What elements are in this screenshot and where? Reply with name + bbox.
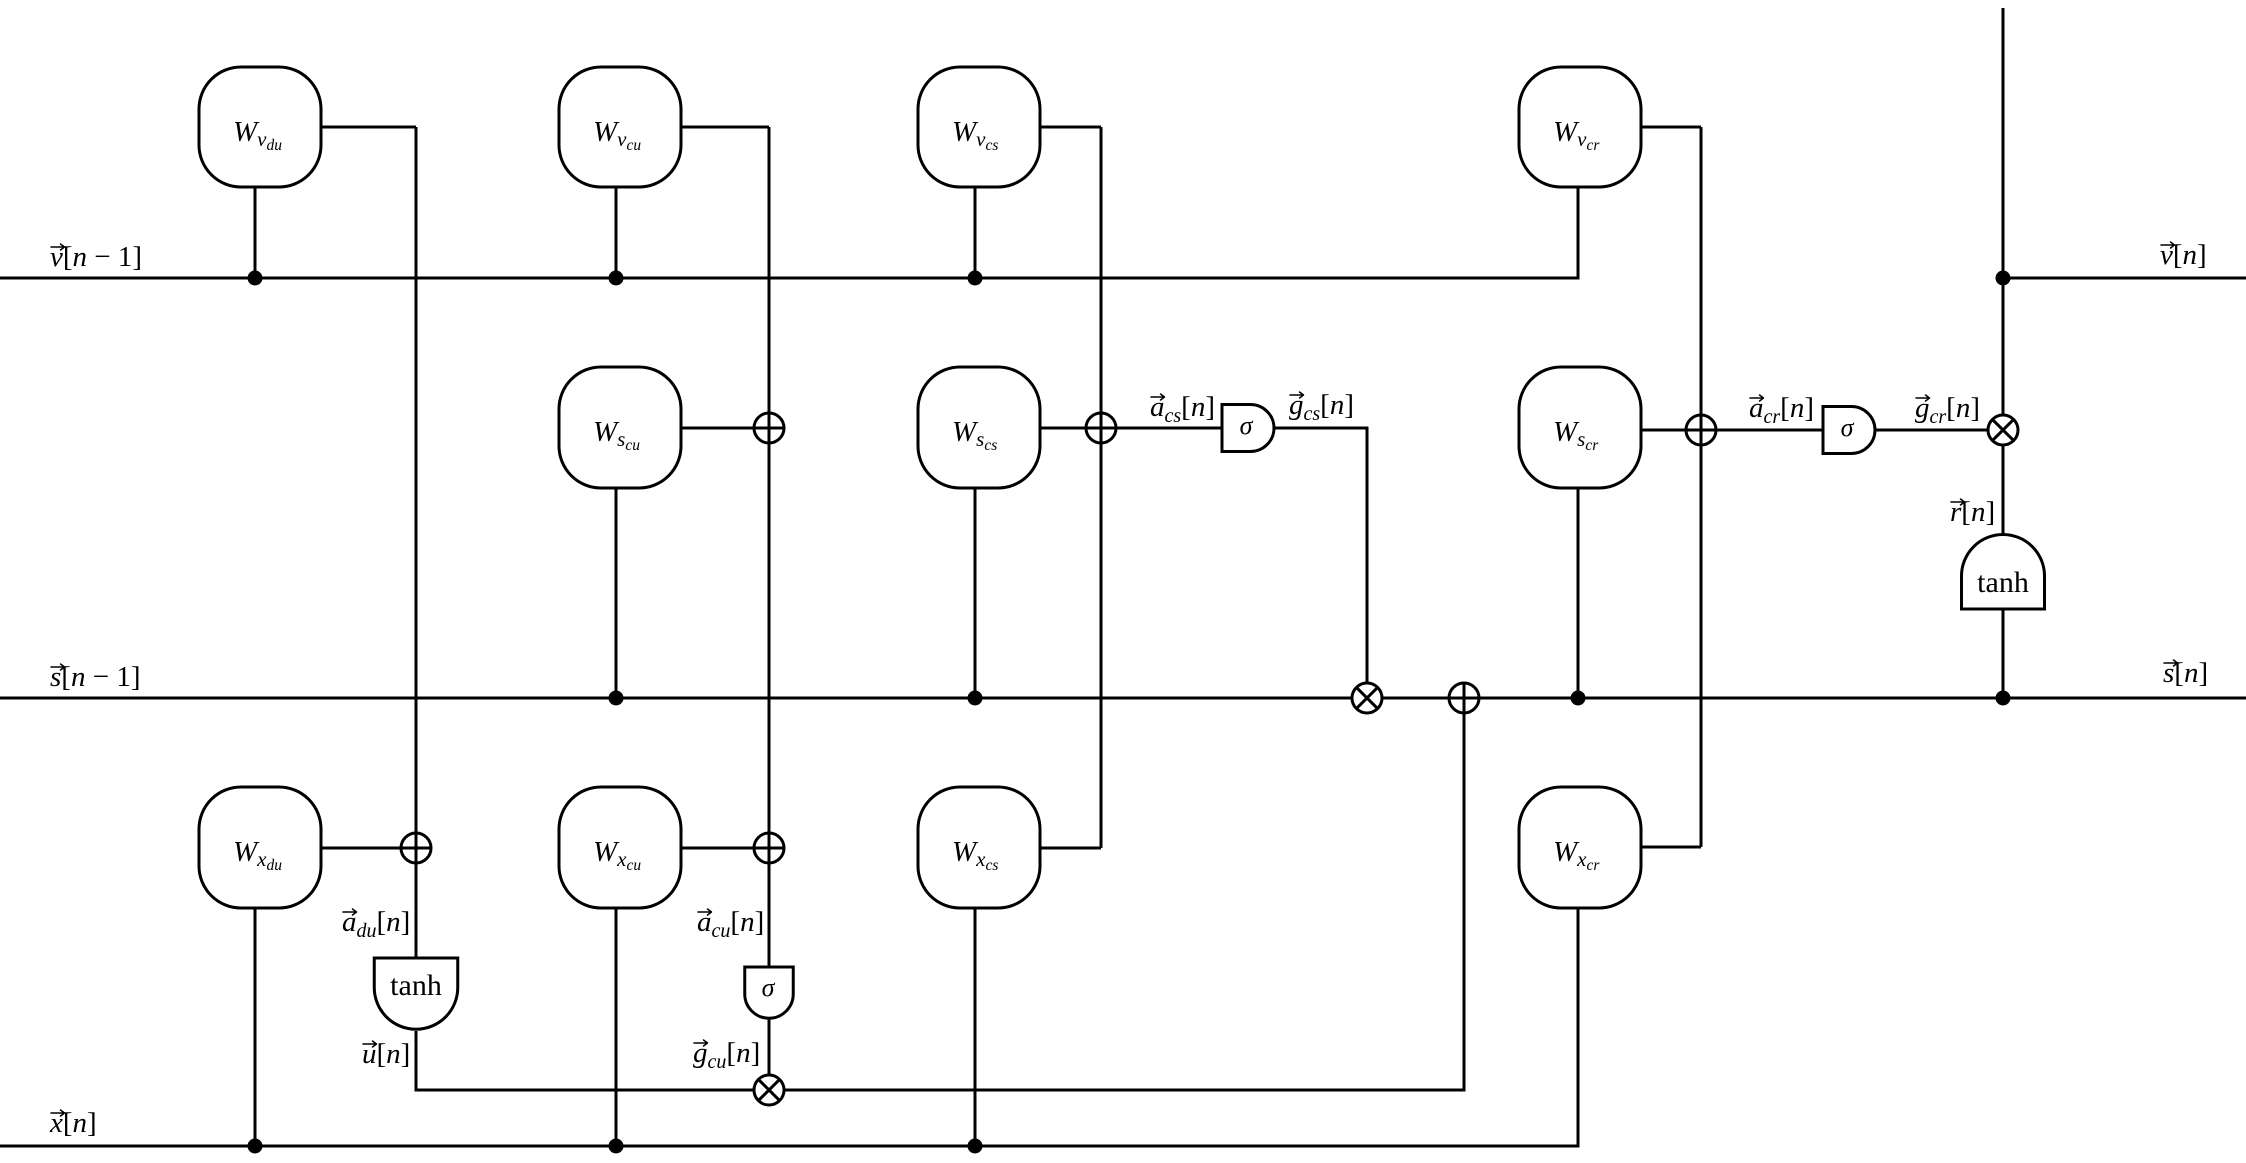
junction dot s bus / W_s_cr: [1571, 691, 1586, 706]
multiplier (circled times) g_cr: [1988, 415, 2018, 445]
wire W_x_cr output: [1641, 846, 1701, 849]
wire g_cr sigma to multiplier: [1875, 429, 2003, 432]
label s[n-1]: [50, 661, 140, 693]
weight block W_v_du: [199, 67, 321, 187]
junction dot x bus / W_x_cu: [609, 1139, 624, 1154]
wire stem W_x_cs to x bus: [974, 908, 977, 1146]
sigma gate (right-pointing) for a_cr: [1823, 407, 1875, 454]
svg-text:tanh: tanh: [390, 969, 442, 1002]
wire stem W_x_cu to x bus: [615, 908, 618, 1146]
wire adder to sigma cs: [1101, 427, 1222, 430]
tanh gate (down-pointing) for u[n]: [374, 958, 458, 1029]
wire W_v_du output: [321, 126, 416, 129]
sigma gate (down-pointing) for a_cu: [745, 967, 794, 1018]
label x[n]: [49, 1107, 97, 1139]
wire W_s_cs output to adder: [1040, 427, 1101, 430]
wire vertical cs column (a_cs): [1100, 127, 1103, 848]
wire W_x_cu output: [681, 847, 769, 850]
wire x[n] bus: [0, 908, 1578, 1146]
junction dot s bus / W_s_cs: [968, 691, 983, 706]
tanh gate (up-pointing) for r[n]: [1961, 535, 2044, 610]
weight block W_s_cs: [918, 367, 1040, 488]
weight block W_x_du: [199, 787, 321, 908]
label g_cu[n]: [693, 1037, 760, 1073]
wire stem W_v_du to v bus: [254, 187, 257, 278]
sigma gate (right-pointing) for a_cs: [1222, 405, 1274, 452]
wire vertical du column (a_du): [415, 127, 418, 958]
wire v[n-1] bus: [0, 187, 1578, 278]
adder (circled plus) a_cr: [1686, 415, 1716, 445]
label v[n]: [2160, 239, 2207, 271]
junction dot s bus / W_s_cu: [609, 691, 624, 706]
wire W_v_cs output: [1040, 126, 1101, 129]
weight block W_x_cr: [1519, 787, 1641, 908]
wire W_s_cu output: [681, 427, 769, 430]
label u[n]: [362, 1038, 410, 1070]
adder (circled plus) W_s_cu column: [754, 413, 784, 443]
wire vertical cr column (a_cr): [1700, 127, 1703, 847]
wire W_x_cs output: [1040, 847, 1101, 850]
label r[n]: [1950, 496, 1995, 528]
adder (circled plus) a_du: [401, 833, 431, 863]
svg-text:u[n]: u[n]: [362, 1038, 410, 1070]
junction dot x bus / W_x_du: [248, 1139, 263, 1154]
multiplier (circled times) g_cu: [754, 1075, 784, 1105]
adder (circled plus) a_cs: [1086, 413, 1116, 443]
wire W_v_cr output: [1641, 126, 1701, 129]
adder (circled plus) a_cu: [754, 833, 784, 863]
weight block W_x_cs: [918, 787, 1040, 908]
junction dot s bus / tanh input: [1996, 691, 2011, 706]
wire W_v_cu output: [681, 126, 769, 129]
wire stem W_s_cu to s bus: [615, 488, 618, 698]
label a_cu[n]: [697, 906, 764, 942]
svg-text:σ: σ: [762, 973, 776, 1002]
weight block W_s_cr: [1519, 367, 1641, 488]
junction dot v bus / W_v_cu: [609, 271, 624, 286]
svg-text:σ: σ: [1841, 413, 1855, 442]
wire g_cs from sigma to s-bus multiplier: [1274, 428, 1367, 698]
svg-text:r[n]: r[n]: [1950, 496, 1995, 528]
svg-text:v[n]: v[n]: [2160, 239, 2207, 271]
wire stem W_s_cs to s bus: [974, 488, 977, 698]
label g_cs[n]: [1289, 389, 1354, 425]
weight block W_x_cu: [559, 787, 681, 908]
junction dot x bus / W_x_cs: [968, 1139, 983, 1154]
label g_cr[n]: [1915, 392, 1980, 428]
wire stem W_s_cr to s bus: [1577, 488, 1580, 698]
svg-text:tanh: tanh: [1977, 566, 2029, 599]
weight block W_v_cu: [559, 67, 681, 187]
label a_cr[n]: [1749, 392, 1814, 428]
label s[n]: [2163, 657, 2208, 689]
wire vertical cu column (a_cu): [768, 127, 771, 967]
label a_du[n]: [342, 906, 410, 942]
weight block W_v_cs: [918, 67, 1040, 187]
wire v[n] output (right and up): [2002, 8, 2005, 698]
multiplier (circled times) g_cs on s bus: [1352, 683, 1382, 713]
label v[n-1]: [50, 241, 142, 273]
svg-text:σ: σ: [1240, 411, 1254, 440]
junction dot v bus / v[n] output: [1996, 271, 2011, 286]
wire u[n] from tanh down and right, up to s-bus adder: [416, 698, 1464, 1090]
svg-text:s[n]: s[n]: [2163, 657, 2208, 689]
wire sigma cu output to multiplier g_cu: [768, 1018, 771, 1090]
junction dot v bus / W_v_cs: [968, 271, 983, 286]
junction dot v bus / W_v_du: [248, 271, 263, 286]
wire a_cr adder to sigma cr: [1701, 429, 1823, 432]
label a_cs[n]: [1150, 391, 1215, 427]
wire stem W_x_du to x bus: [254, 908, 257, 1146]
wire stem W_v_cu to v bus: [615, 187, 618, 278]
adder (circled plus) on s bus: [1449, 683, 1479, 713]
weight block W_s_cu: [559, 367, 681, 488]
wire stem W_v_cs to v bus: [974, 187, 977, 278]
svg-text:x[n]: x[n]: [49, 1107, 97, 1139]
wire s[n-1]/s[n] bus: [0, 697, 2246, 700]
wire W_x_du output: [321, 847, 416, 850]
wire W_s_cr output: [1641, 429, 1701, 432]
weight block W_v_cr: [1519, 67, 1641, 187]
